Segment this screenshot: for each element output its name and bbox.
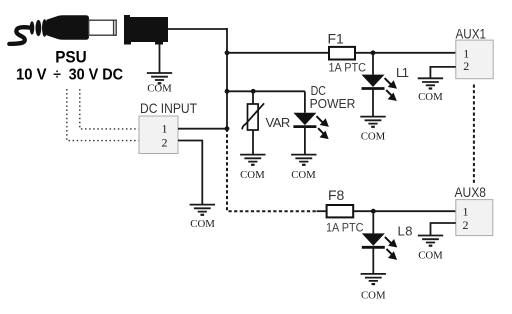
svg-text:COM: COM [190, 218, 215, 230]
wire L1 to ground [372, 89, 374, 117]
svg-text:PSU: PSU [55, 48, 86, 67]
wire to LED L1 [372, 53, 374, 75]
connector AUX8 [456, 200, 493, 236]
wire AUX8 pin2 to ground [431, 223, 456, 236]
fuse F8 [327, 205, 354, 217]
wire jack ground stub [159, 44, 161, 73]
DC jack socket J1 [124, 15, 168, 45]
wire to LED L8 [372, 211, 374, 233]
fuse F1 [329, 47, 355, 60]
LED DC POWER [293, 113, 327, 138]
ground (AUX1 pin2) [418, 78, 443, 88]
barrel tip ring [114, 20, 117, 35]
wire AUX1 pin2 to ground [430, 67, 455, 78]
svg-text:F1: F1 [328, 31, 345, 47]
dotted guide line to pin 1 [80, 89, 139, 129]
svg-text:÷: ÷ [53, 66, 61, 82]
svg-text:1A PTC: 1A PTC [329, 60, 367, 74]
svg-text:COM: COM [361, 290, 386, 302]
wire bus to VAR row [227, 90, 305, 92]
svg-text:2: 2 [463, 59, 469, 73]
wire to DC POWER LED [304, 91, 306, 112]
wire F8 to AUX8 [353, 210, 456, 212]
wire L8 to ground [372, 248, 374, 274]
wire F1 to AUX1 [355, 52, 456, 54]
dotted guide line to pin 2 [67, 89, 139, 141]
varistor VAR [248, 104, 259, 130]
ground (AUX8 pin2) [418, 236, 443, 246]
PSU plug strain relief bumps [30, 21, 35, 34]
ground (L8) [361, 274, 386, 284]
svg-text:AUX1: AUX1 [456, 27, 487, 42]
PSU plug body [46, 15, 89, 40]
svg-text:30 V DC: 30 V DC [69, 66, 124, 83]
wire bus to F1 [227, 52, 329, 54]
dashed bus continuation [227, 129, 317, 212]
PSU plug barrel [89, 20, 116, 35]
wire DC POWER LED to ground [304, 127, 306, 155]
junction bus/F1 [225, 50, 230, 55]
svg-text:1A PTC: 1A PTC [326, 221, 364, 235]
svg-text:1: 1 [463, 205, 469, 219]
LED L8 [362, 233, 396, 258]
wire +V bus vertical [226, 28, 228, 129]
svg-text:L1: L1 [396, 65, 409, 80]
svg-text:AUX8: AUX8 [455, 185, 487, 200]
dashed link AUX1 to AUX8 [473, 85, 475, 200]
PSU cable [9, 27, 30, 44]
ground (jack) [147, 73, 172, 83]
junction bus/VAR row [225, 89, 230, 94]
connector DC INPUT [139, 116, 178, 154]
junction F8/L8 [371, 209, 376, 214]
svg-text:2: 2 [463, 218, 469, 232]
svg-text:COM: COM [147, 83, 172, 95]
wire VAR to ground [252, 130, 254, 155]
junction F1/L1 [371, 50, 376, 55]
svg-text:10 V: 10 V [16, 66, 47, 83]
svg-text:COM: COM [418, 250, 443, 262]
ground (DC POWER) [291, 155, 316, 165]
LED L1 [362, 75, 396, 100]
connector AUX1 [456, 40, 493, 79]
wire DC INPUT pin2 to ground [178, 141, 202, 205]
svg-text:POWER: POWER [310, 97, 356, 111]
svg-text:VAR: VAR [266, 115, 291, 130]
label AUX8 [452, 185, 493, 200]
svg-text:L8: L8 [398, 223, 413, 238]
junction bus/pin1 [225, 126, 230, 131]
svg-text:1: 1 [463, 46, 469, 60]
ground (DC INPUT pin2) [190, 205, 215, 215]
svg-text:COM: COM [418, 91, 443, 103]
ground (L1) [360, 117, 385, 127]
wire DC INPUT pin1 to bus [178, 128, 227, 130]
svg-text:COM: COM [291, 169, 316, 181]
wire jack to bus [168, 28, 227, 30]
junction VAR [251, 89, 256, 94]
svg-text:COM: COM [240, 169, 265, 181]
svg-text:DC INPUT: DC INPUT [140, 101, 197, 116]
svg-text:COM: COM [361, 131, 386, 143]
ground (VAR) [240, 155, 265, 165]
wire to varistor [252, 91, 254, 104]
svg-text:1: 1 [162, 122, 168, 136]
svg-text:2: 2 [162, 136, 168, 150]
svg-text:F8: F8 [328, 187, 345, 203]
